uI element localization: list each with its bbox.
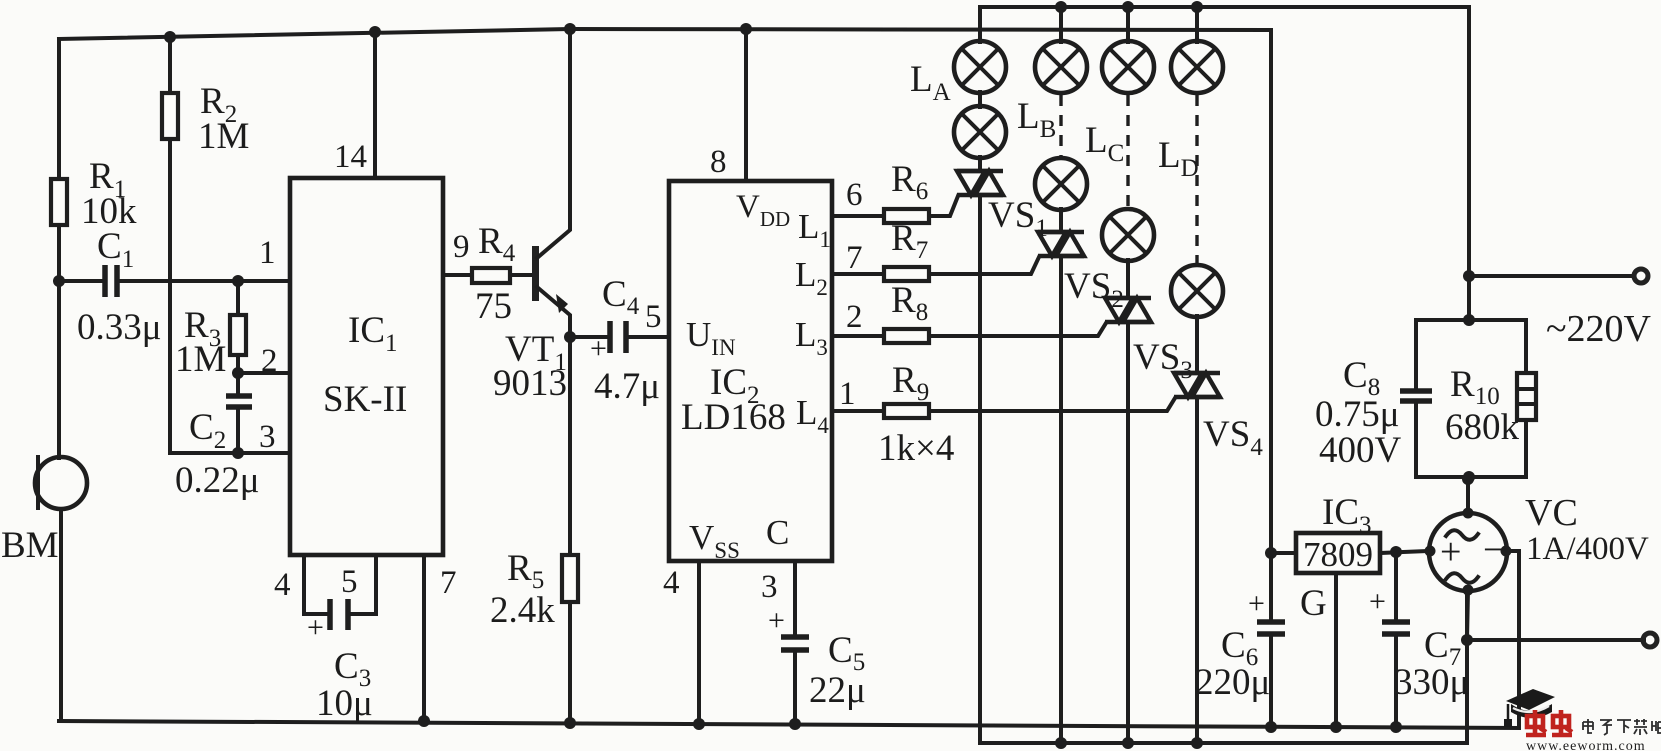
wire R3 to node 2 [236,355,240,396]
svg-text:+: + [1440,531,1461,573]
svg-text:330μ: 330μ [1394,662,1469,703]
svg-text:1A/400V: 1A/400V [1526,531,1649,567]
wire IC3 out [1271,551,1296,555]
IC U3 (IC3 7809) [1296,492,1380,624]
wire VC minus to ground corner [1506,549,1519,553]
triac VS1 [957,171,1048,242]
node RC box top [1463,314,1475,326]
node IC3 out [1265,547,1277,559]
resistor R3 [175,281,246,380]
watermark site name [1583,719,1661,735]
wire IC2 pin3 [793,561,797,637]
wire IC2 L1 out [832,214,884,218]
transistor Q1 (VT1 9013) [493,29,570,404]
node VC top [1462,473,1474,485]
resistor R10 [1445,364,1536,448]
svg-text:0.75μ: 0.75μ [1315,394,1400,435]
svg-text:9: 9 [453,229,470,265]
wire C1 to IC1 pin 1 [117,279,290,283]
svg-text:10μ: 10μ [316,683,373,724]
bridge rectifier VC [1425,492,1650,596]
wire R7 to VS2 gate [929,257,1039,274]
node lamp rail B [1055,1,1067,13]
IC U2 (IC2 LD168) [669,181,832,563]
wire left vertical branch [57,39,61,179]
wire IC3 ground pin [1334,573,1338,727]
node bar B [1055,737,1067,749]
node C5 ground [789,718,801,730]
capacitor C1 [59,226,162,348]
wire lamp bottom bar [980,589,1467,743]
svg-text:4: 4 [274,567,291,603]
svg-text:5: 5 [341,564,358,600]
svg-text:+: + [768,604,785,637]
node C7 ground [1390,721,1402,733]
svg-text:400V: 400V [1319,430,1402,471]
svg-text:8: 8 [710,144,727,180]
wire R5 to ground [568,602,572,723]
svg-text:3: 3 [259,419,276,455]
lamp LD string [1158,7,1223,373]
node lamp rail C [1122,1,1134,13]
node AC tap [1463,270,1475,282]
svg-text:7809: 7809 [1303,535,1373,574]
wire R2 down to pin3 net [170,139,238,453]
triac VS4 [1174,373,1263,461]
node C7 top [1390,546,1402,558]
wire C6 to ground [1269,634,1273,727]
terminal AC bottom [1643,633,1657,647]
svg-text:4.7μ: 4.7μ [594,366,660,407]
capacitor C8 [1315,355,1432,471]
svg-text:BM: BM [1,525,59,566]
svg-text:LD168: LD168 [681,397,786,438]
svg-text:1M: 1M [198,116,249,157]
svg-text:6: 6 [846,177,863,213]
svg-text:~220V: ~220V [1546,308,1652,350]
node IC1 pin3 junction [232,447,244,459]
svg-text:9013: 9013 [493,363,567,404]
wire IC1 pin4 stub [304,555,330,614]
capacitor C4 [570,274,660,407]
wire R9 to VS4 gate [929,398,1175,411]
wire to AC terminal [1469,274,1633,278]
node pin4 ground [693,718,705,730]
capacitor C7 [1369,552,1469,703]
svg-text:2.4k: 2.4k [490,590,555,631]
wire VS3 down column C [1126,322,1130,743]
triac VS3 [1105,298,1193,384]
wire IC1 pin14 [373,32,377,178]
wire IC2 pin8 [744,29,748,181]
wire VS2 down column B [1059,256,1063,743]
svg-text:SK-II: SK-II [323,379,407,420]
wire VC bottom [1467,590,1468,640]
wire IC1 pin7 [422,555,426,721]
node collector top [564,23,576,35]
svg-text:680k: 680k [1445,407,1520,448]
svg-text:www.eeworm.com: www.eeworm.com [1526,739,1646,751]
resistor R1 [51,156,137,232]
svg-text:G: G [1300,583,1327,624]
wire IC1 pin9 [443,273,472,277]
wire C7 to ground [1394,634,1398,727]
svg-text:2: 2 [261,343,278,379]
wire C2 to pin3 [236,407,240,453]
svg-text:220μ: 220μ [1195,662,1270,703]
wire lamp top rail [980,7,1469,276]
capacitor C5 [768,604,866,711]
svg-text:1: 1 [839,376,856,412]
RC snubber box frame [1416,320,1526,477]
node pin8 top [740,23,752,35]
svg-text:4: 4 [663,565,680,601]
wire C5 to ground [793,650,797,724]
wire R4 to base [510,273,534,277]
svg-text:3: 3 [761,569,778,605]
resistor R7 [884,218,929,281]
svg-text:0.22μ: 0.22μ [175,460,260,501]
wire IC3 in [1380,551,1429,553]
node R2 top [164,31,176,43]
svg-text:75: 75 [475,286,512,327]
wire IC1 pin5 stub [348,555,376,614]
triac VS2 [1038,232,1124,313]
wire C4 to IC2 pin5 [626,335,669,339]
node bar D [1191,737,1203,749]
wire BM to bottom rail [59,509,61,721]
wire R8 to VS3 gate [929,323,1106,336]
resistor R6 [884,159,929,223]
wire VC top [1466,479,1470,513]
wire IC2 L4 out [832,409,884,413]
node C6 ground [1265,721,1277,733]
node lamp rail D [1191,1,1203,13]
capacitor C2 [175,396,260,501]
wire pin2 [238,371,290,375]
svg-text:+: + [1369,585,1386,618]
wire VS1 down column A [978,195,982,743]
microphone BM [1,457,87,566]
node A (C1 left) [53,275,65,287]
lamp LB string [1017,7,1087,232]
svg-text:+: + [307,611,324,644]
wire to AC terminal bottom [1467,638,1644,642]
wire box bottom to VC [1468,477,1469,479]
capacitor C3 [307,599,373,724]
wire AC line to RC box [1467,276,1471,320]
svg-text:14: 14 [334,139,367,175]
wire bottom ground rail [59,551,1519,728]
svg-text:2: 2 [846,299,863,335]
node IC1 pin2 junction [232,367,244,379]
wire IC2 L3 out [832,334,884,338]
resistor R4 [472,221,516,327]
svg-text:+: + [1248,587,1265,620]
node AC return [1461,634,1473,646]
svg-text:VC: VC [1525,492,1578,534]
svg-text:1M: 1M [175,339,226,380]
wire supply rail down to IC3 [1269,30,1273,553]
lamp LC string [1085,7,1154,298]
resistor R5 [490,337,578,631]
wire top supply rail [59,29,1271,39]
wire VS4 down column D [1195,397,1199,743]
wire node to BM [57,281,61,458]
node IC3 ground [1330,721,1342,733]
svg-text:5: 5 [645,299,662,335]
node pin7 ground [418,715,430,727]
capacitor C6 [1195,553,1285,703]
svg-text:1: 1 [259,235,276,271]
wire R1 to node [57,225,61,281]
node bar C [1122,737,1134,749]
watermark logo cap [1504,689,1555,727]
node RC box bottom [1463,471,1475,483]
node pin14 top [369,26,381,38]
IC U1 (IC1 SK-II) [290,178,443,555]
node IC1 pin1 junction [232,275,244,287]
resistor R9 [878,360,954,469]
terminal ~220V top [1546,269,1652,350]
resistor R8 [884,280,929,343]
svg-text:C: C [766,513,789,552]
svg-text:1k×4: 1k×4 [878,428,954,469]
wire pin3 [238,451,290,455]
svg-text:+: + [590,332,607,365]
node R5 ground [564,717,576,729]
wire IC2 pin4 [697,561,701,724]
wire IC2 L2 out [832,272,884,276]
svg-text:0.33μ: 0.33μ [77,307,162,348]
resistor R2 [162,37,249,157]
lamp LA string [910,7,1006,171]
svg-text:22μ: 22μ [809,670,866,711]
svg-text:7: 7 [440,565,457,601]
wire R6 to VS1 gate [929,196,958,216]
svg-text:7: 7 [846,240,863,276]
node emitter [564,331,576,343]
watermark chongchong red [1526,710,1572,735]
